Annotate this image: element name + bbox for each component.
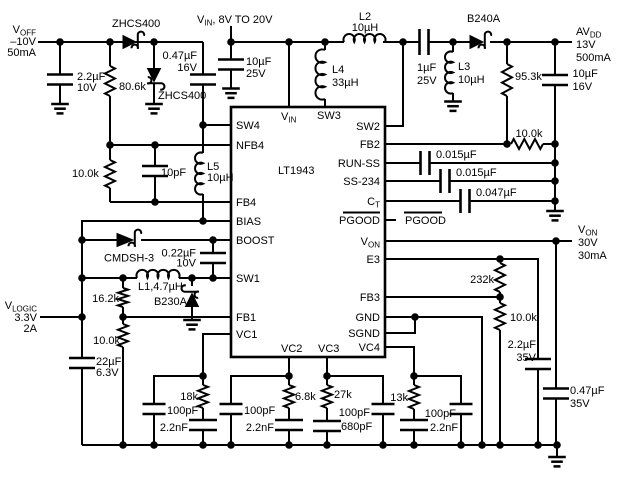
U1 label LT1943 <box>278 165 315 177</box>
label VOFF output <box>7 24 36 59</box>
inductor L4 33uH <box>315 42 358 107</box>
node rail C10 <box>534 441 542 449</box>
node L2/C5/SW2 <box>399 38 407 46</box>
capacitor C6 10uF 16V <box>542 42 598 211</box>
node FB2/R3 <box>503 140 511 148</box>
svg-text:L1,4.7µH: L1,4.7µH <box>138 281 183 293</box>
node FB3/R5/R6 <box>496 293 504 301</box>
svg-text:30V: 30V <box>578 237 598 249</box>
wire VIN stub <box>230 26 232 42</box>
svg-text:SW3: SW3 <box>317 110 341 122</box>
svg-text:1µF: 1µF <box>417 62 436 74</box>
label VIN 8V TO 20V <box>197 14 273 28</box>
resistor R5 232k <box>470 263 505 297</box>
resistor R1 80.6k <box>105 42 146 145</box>
svg-text:10.0k: 10.0k <box>93 335 120 347</box>
capacitor C7 0.015uF <box>421 149 556 175</box>
svg-text:100pF: 100pF <box>167 405 198 417</box>
label VON output <box>578 224 607 262</box>
capacitor C1 2.2uF 10V <box>47 42 106 94</box>
svg-text:13V: 13V <box>576 39 596 51</box>
node VC4 <box>410 372 418 380</box>
node C8/gnd column <box>551 177 559 185</box>
svg-text:25V: 25V <box>417 75 437 87</box>
wire ground rail <box>82 444 557 446</box>
svg-text:0.047µF: 0.047µF <box>476 187 517 199</box>
svg-text:100pF: 100pF <box>425 408 456 420</box>
svg-text:SW2: SW2 <box>356 121 380 133</box>
diode D1 ZHCS400 <box>110 18 160 49</box>
node rail C12 <box>457 441 465 449</box>
pin E3 <box>367 254 380 266</box>
node L5/BIAS <box>199 217 207 225</box>
svg-text:ZHCS400: ZHCS400 <box>112 18 160 30</box>
svg-text:FB2: FB2 <box>360 139 380 151</box>
wire RUN-SS <box>385 162 420 164</box>
wire FB4 <box>110 201 231 203</box>
capacitor C14 100pF <box>143 404 199 445</box>
resistor R6 10.0k <box>495 297 537 445</box>
svg-text:2.2nF: 2.2nF <box>430 422 458 434</box>
svg-text:E3: E3 <box>367 254 380 266</box>
svg-text:10V: 10V <box>77 82 97 94</box>
wire VC3 branch <box>327 376 383 403</box>
svg-text:SW4: SW4 <box>236 120 260 132</box>
svg-text:2.2nF: 2.2nF <box>246 422 274 434</box>
wire GND pin <box>385 317 482 445</box>
svg-text:B240A: B240A <box>467 13 501 25</box>
node rail C14 <box>150 441 158 449</box>
svg-text:10µH: 10µH <box>352 22 379 34</box>
svg-text:FB3: FB3 <box>360 292 380 304</box>
node rail C16 <box>227 441 235 449</box>
svg-text:LT1943: LT1943 <box>278 165 315 177</box>
node E3/R5 <box>496 255 504 263</box>
capacitor C13 2.2nF <box>160 420 217 445</box>
node rail C17 <box>323 441 331 449</box>
svg-text:2.2µF: 2.2µF <box>508 339 537 351</box>
node SW1/D5 <box>188 274 196 282</box>
svg-text:CMDSH-3: CMDSH-3 <box>104 253 154 265</box>
svg-text:BIAS: BIAS <box>236 216 261 228</box>
wire SGND pin <box>385 317 415 333</box>
svg-text:500mA: 500mA <box>576 52 612 64</box>
capacitor C2 0.47uF 16V <box>163 42 216 125</box>
wire VC1 <box>203 334 231 376</box>
capacitor C5 1uF 25V <box>417 29 437 87</box>
node VC2 <box>285 372 293 380</box>
svg-text:2A: 2A <box>24 323 38 335</box>
svg-text:6.3V: 6.3V <box>96 367 119 379</box>
pin NFB4 <box>236 140 264 152</box>
wire VC3 <box>326 357 328 376</box>
svg-text:16V: 16V <box>177 62 197 74</box>
capacitor C8 0.015uF <box>441 167 556 193</box>
pin BIAS <box>236 216 261 228</box>
node rail GND pin <box>478 441 486 449</box>
svg-text:25V: 25V <box>246 68 266 80</box>
wire BIAS <box>82 221 231 357</box>
wire VC2 <box>288 357 290 376</box>
svg-text:L3: L3 <box>458 61 470 73</box>
node FB4/C3 <box>151 198 159 206</box>
wire FB3 <box>385 296 500 298</box>
ground D2 <box>145 104 163 113</box>
node rail C18 <box>379 441 387 449</box>
svg-text:0.47µF: 0.47µF <box>570 385 605 397</box>
capacitor C19 22uF 6.3V <box>69 356 122 445</box>
pin SW3 top <box>317 110 341 122</box>
svg-text:27k: 27k <box>334 389 352 401</box>
pin SS-234 <box>343 176 380 188</box>
pin PGOOD <box>339 213 380 228</box>
resistor R2 10.0k <box>72 145 115 202</box>
svg-text:35V: 35V <box>516 352 536 364</box>
node rail C15 <box>285 441 293 449</box>
svg-text:10µH: 10µH <box>458 74 485 86</box>
ground AVDD column <box>546 211 564 220</box>
node rail C13 <box>199 441 207 449</box>
capacitor C15 2.2nF <box>246 420 303 445</box>
node D1/D2 <box>150 38 158 46</box>
ground rail symbol <box>548 445 566 466</box>
svg-text:0.47µF: 0.47µF <box>163 50 198 62</box>
wire VC2 branch <box>231 376 289 403</box>
svg-text:232k: 232k <box>470 274 494 286</box>
capacitor C10 2.2uF 35V <box>508 339 551 445</box>
node SW4 <box>199 121 207 129</box>
resistor R8 18k <box>180 376 208 419</box>
node GND/SGND <box>411 313 419 321</box>
pin VIN top <box>281 111 297 125</box>
capacitor C20 0.22uF 10V <box>162 240 226 278</box>
resistor R4 10.0k <box>511 128 555 149</box>
pin FB4 <box>236 197 256 209</box>
svg-text:33µH: 33µH <box>332 77 359 89</box>
resistor R11 16.2k <box>92 278 128 317</box>
diode D2 ZHCS400 to ground <box>147 42 206 104</box>
ground L3 <box>444 102 462 111</box>
capacitor C11 2.2nF <box>400 420 458 445</box>
node SW1/R11 <box>119 274 127 282</box>
node BOOST/VLOGIC rail <box>78 236 86 244</box>
pin SW2 <box>356 121 380 133</box>
svg-text:GND: GND <box>356 312 381 324</box>
svg-text:100pF: 100pF <box>244 405 275 417</box>
pin VON <box>361 236 381 250</box>
node BOOST/C20 <box>209 236 217 244</box>
svg-text:10.0k: 10.0k <box>516 128 543 140</box>
svg-text:35V: 35V <box>570 398 590 410</box>
svg-text:6.8k: 6.8k <box>295 391 316 403</box>
svg-text:2.2nF: 2.2nF <box>160 422 188 434</box>
op-amp U1 LT1943 outline <box>231 107 385 357</box>
node VOFF/R1/D1 <box>106 38 114 46</box>
resistor R3 95.3k <box>502 42 542 144</box>
svg-text:SS-234: SS-234 <box>343 176 380 188</box>
node SW1/C20 <box>209 274 217 282</box>
svg-text:10µH: 10µH <box>207 172 234 184</box>
node SW1/VLOGIC rail <box>78 274 86 282</box>
node rail C11 <box>410 441 418 449</box>
wire SS-234 <box>385 180 440 182</box>
wire VC1 branch <box>154 376 203 403</box>
svg-text:ZHCS400: ZHCS400 <box>158 90 206 102</box>
pin FB3 <box>360 292 380 304</box>
svg-text:10µF: 10µF <box>573 68 599 80</box>
ground C4 <box>222 89 240 98</box>
svg-text:VC2: VC2 <box>281 343 302 355</box>
node NFB4/C3 <box>151 141 159 149</box>
node C7/gnd column <box>551 159 559 167</box>
capacitor C18 100pF <box>339 404 395 445</box>
svg-text:VC1: VC1 <box>236 329 257 341</box>
node NFB4/R1 <box>106 141 114 149</box>
resistor R10 27k <box>322 376 352 420</box>
node FB1/R11/R12 <box>119 313 127 321</box>
svg-text:0.015µF: 0.015µF <box>456 167 497 179</box>
wire VON output <box>385 240 572 242</box>
inductor L1 4.7uH <box>136 270 182 293</box>
svg-text:80.6k: 80.6k <box>119 81 146 93</box>
pin SW4 <box>236 120 260 132</box>
wire CT <box>385 200 460 202</box>
svg-text:16V: 16V <box>573 81 593 93</box>
node AVDD/C6 <box>551 38 559 46</box>
node rail R6 <box>496 441 504 449</box>
node VLOGIC/rail <box>78 313 86 321</box>
svg-text:SW1: SW1 <box>236 273 260 285</box>
node C5/L3 <box>449 38 457 46</box>
capacitor C3 10pF <box>142 145 186 202</box>
wire VOFF rail <box>38 41 203 43</box>
ground C1 <box>51 84 69 113</box>
inductor L2 10uH <box>343 11 385 42</box>
wire FB2 <box>385 143 510 145</box>
svg-text:50mA: 50mA <box>7 47 36 59</box>
node L4 top <box>321 38 329 46</box>
node rail C22 <box>553 441 561 449</box>
resistor R12 10.0k <box>93 317 128 445</box>
node VON/C22 <box>552 237 560 245</box>
pin SW1 <box>236 273 260 285</box>
node D3/R3 <box>503 38 511 46</box>
node rail R12 <box>119 441 127 449</box>
inductor L5 10uH <box>195 125 234 221</box>
svg-text:680pF: 680pF <box>341 421 372 433</box>
wire VC4 branch <box>414 376 461 403</box>
node VC3 <box>323 372 331 380</box>
pin GND <box>356 312 381 324</box>
svg-text:FB1: FB1 <box>236 312 256 324</box>
pin VC1 <box>236 329 257 341</box>
svg-text:10V: 10V <box>176 258 196 270</box>
svg-text:FB4: FB4 <box>236 197 256 209</box>
svg-text:VC3: VC3 <box>318 343 339 355</box>
pin SGND <box>348 328 380 340</box>
capacitor C22 0.47uF 35V <box>543 241 605 445</box>
svg-text:10.0k: 10.0k <box>510 312 537 324</box>
wire VC4 <box>385 347 414 376</box>
node R4/gnd column <box>551 140 559 148</box>
svg-text:NFB4: NFB4 <box>236 140 264 152</box>
wire VIN pin <box>288 42 290 107</box>
node VIN pin <box>285 38 293 46</box>
pin CT <box>367 196 380 210</box>
pin RUN-SS <box>338 158 380 170</box>
label VLOGIC output <box>5 300 38 335</box>
diode D5 B230A <box>154 278 199 320</box>
svg-text:PGOOD: PGOOD <box>339 215 380 227</box>
capacitor C16 100pF <box>220 404 276 445</box>
pin VC4 <box>359 342 380 354</box>
svg-text:95.3k: 95.3k <box>515 71 542 83</box>
node VOFF/C1 <box>56 38 64 46</box>
svg-text:10µF: 10µF <box>246 56 272 68</box>
svg-text:VC4: VC4 <box>359 342 380 354</box>
svg-text:100pF: 100pF <box>339 407 370 419</box>
label PGOOD net <box>385 213 446 228</box>
diode D4 CMDSH-3 <box>104 230 154 265</box>
svg-text:13k: 13k <box>390 392 408 404</box>
wire SW2 <box>385 42 403 126</box>
inductor L3 10uH <box>445 42 485 102</box>
svg-text:BOOST: BOOST <box>236 235 275 247</box>
svg-text:PGOOD: PGOOD <box>405 215 446 227</box>
svg-text:0.015µF: 0.015µF <box>436 149 477 161</box>
resistor R9 6.8k <box>284 376 316 419</box>
wire SW4 <box>203 124 231 126</box>
node VC1 <box>199 372 207 380</box>
wire BOOST <box>82 239 231 241</box>
pin BOOST <box>236 235 275 247</box>
node C9/gnd column <box>551 197 559 205</box>
diode D3 B240A <box>467 13 501 49</box>
wire E3 <box>385 259 538 358</box>
svg-text:18k: 18k <box>180 391 198 403</box>
svg-text:10.0k: 10.0k <box>72 168 99 180</box>
svg-text:L4: L4 <box>332 64 344 76</box>
node VIN/C4 <box>227 38 235 46</box>
capacitor C4 10uF 25V <box>218 42 272 89</box>
svg-text:30mA: 30mA <box>578 250 607 262</box>
capacitor C17 680pF <box>313 421 372 445</box>
svg-text:SGND: SGND <box>348 328 380 340</box>
svg-text:B230A: B230A <box>154 296 188 308</box>
label AVDD output <box>576 26 612 64</box>
wire SW1 <box>82 277 231 279</box>
pin VC3 bottom <box>318 343 339 355</box>
resistor R7 13k <box>390 376 419 419</box>
wire FB1 <box>123 316 231 318</box>
pin FB2 <box>360 139 380 151</box>
wire VIN rail <box>231 41 572 43</box>
svg-text:10pF: 10pF <box>161 167 186 179</box>
ground D5 <box>183 320 201 329</box>
capacitor C9 0.047uF <box>461 187 556 213</box>
pin VC2 bottom <box>281 343 302 355</box>
wire VLOGIC input <box>40 316 82 318</box>
svg-text:RUN-SS: RUN-SS <box>338 158 380 170</box>
pin FB1 <box>236 312 256 324</box>
capacitor C12 100pF <box>425 404 473 445</box>
svg-text:16.2k: 16.2k <box>92 293 119 305</box>
wire NFB4 <box>110 144 231 146</box>
